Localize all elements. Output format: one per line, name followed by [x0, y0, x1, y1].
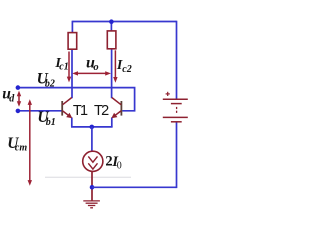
- svg-text:c2: c2: [122, 64, 131, 75]
- wire right vertical upper: [176, 21, 178, 99]
- faint guide line: [45, 176, 131, 178]
- arrow Ucm (double): [29, 103, 31, 183]
- arrow Ic2: [114, 50, 116, 79]
- svg-text:T2: T2: [94, 103, 109, 119]
- current source 2I0: [83, 151, 103, 171]
- wire emitter bus: [71, 126, 113, 128]
- svg-text:0: 0: [117, 161, 122, 172]
- battery: [163, 99, 188, 122]
- svg-text:b1: b1: [46, 117, 56, 128]
- wire right vertical lower: [176, 122, 178, 188]
- transistor T2: [112, 98, 122, 117]
- transistor T1: [62, 98, 72, 117]
- arrow ud (double): [18, 94, 20, 104]
- wire bottom horizontal: [92, 186, 177, 188]
- wire R1 bottom to T1 collector: [71, 49, 73, 98]
- svg-text:T1: T1: [73, 103, 88, 119]
- node emitters: [90, 125, 95, 130]
- resistor R1: [68, 33, 77, 50]
- ground: [83, 201, 100, 208]
- resistor R2: [107, 31, 116, 49]
- battery plus: [166, 92, 170, 96]
- wire top horizontal: [72, 21, 176, 23]
- wire Ub1 lower to T1 base: [18, 110, 62, 112]
- wire to current source: [91, 127, 93, 152]
- wire R2 bottom to T2 collector: [111, 49, 113, 98]
- wire current source to ground node: [91, 171, 93, 200]
- svg-text:o: o: [93, 62, 98, 73]
- wire Ub2 upper rail to T2 base: [18, 88, 135, 111]
- svg-text:cm: cm: [15, 142, 27, 153]
- node lower left: [16, 109, 21, 114]
- node ground: [90, 185, 95, 190]
- wire into R1 top: [71, 21, 73, 34]
- arrow uo (double): [76, 72, 108, 74]
- wire T1 emitter down: [71, 117, 73, 127]
- arrow Ic1: [68, 52, 70, 79]
- svg-text:b2: b2: [45, 78, 55, 89]
- node dot top wire: [109, 19, 114, 24]
- svg-text:c1: c1: [59, 62, 68, 73]
- wire T2 emitter down: [111, 117, 113, 127]
- node upper left: [16, 85, 21, 90]
- svg-text:d: d: [9, 94, 15, 105]
- wire into R2 top: [110, 22, 112, 32]
